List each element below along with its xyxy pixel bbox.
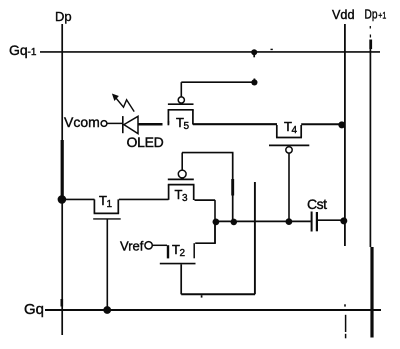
svg-text:+1: +1 [378,11,386,21]
svg-text:5: 5 [184,121,190,132]
svg-text:Vref: Vref [120,239,144,254]
svg-text:4: 4 [292,125,298,136]
svg-text:Gq: Gq [24,301,44,318]
svg-text:OLED: OLED [127,134,164,150]
svg-text:Dp: Dp [365,8,378,22]
svg-text:Vdd: Vdd [332,7,355,22]
svg-text:-1: -1 [28,47,37,58]
svg-text:2: 2 [180,248,186,259]
svg-text:Cst: Cst [307,196,327,212]
svg-text:1: 1 [107,199,113,210]
svg-text:3: 3 [182,193,188,204]
svg-text:Dp: Dp [55,9,72,24]
svg-text:Vcom: Vcom [64,114,100,130]
svg-text:Gq: Gq [9,42,28,58]
